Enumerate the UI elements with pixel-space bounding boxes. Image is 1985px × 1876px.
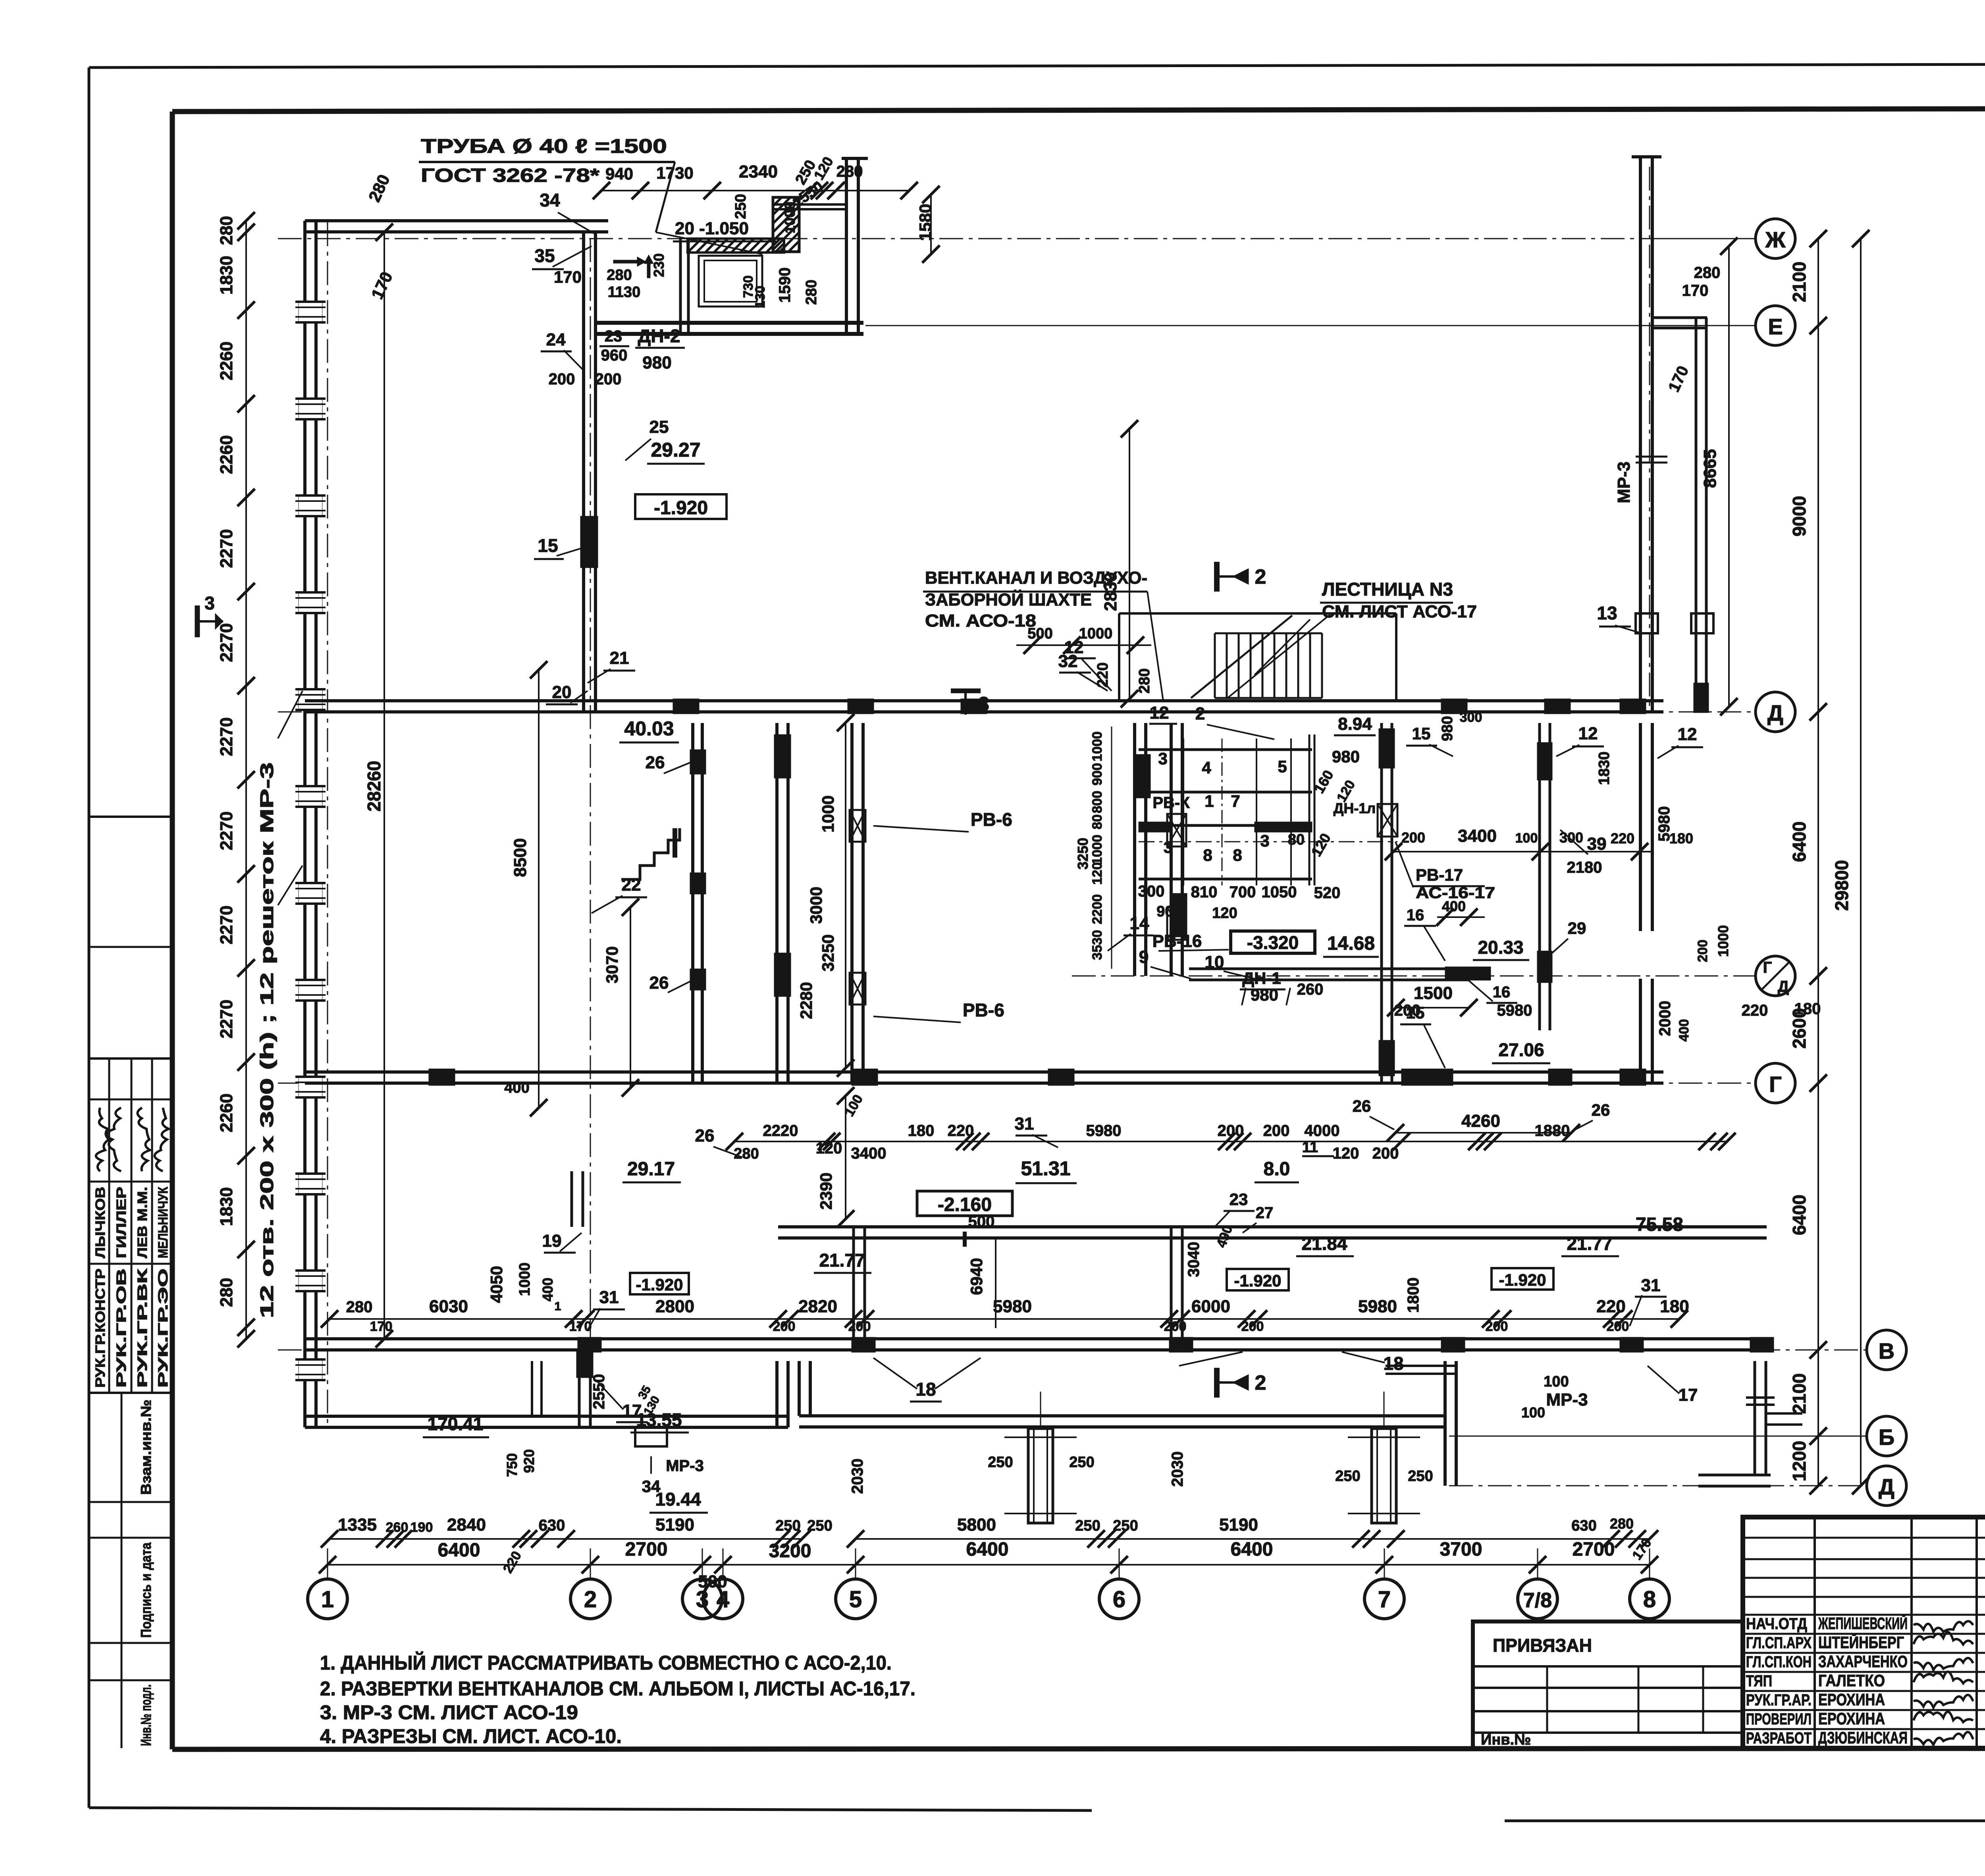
axis circle Ж (1663, 238, 1756, 239)
svg-text:400: 400 (504, 1080, 529, 1096)
svg-text:900: 900 (1156, 903, 1181, 920)
svg-text:2270: 2270 (217, 529, 236, 568)
svg-text:РАЗРАБОТ: РАЗРАБОТ (1746, 1729, 1812, 1747)
stair steps (1214, 633, 1216, 698)
svg-text:35: 35 (534, 245, 555, 266)
svg-text:1880: 1880 (1535, 1122, 1570, 1139)
svg-text:2000: 2000 (1656, 1001, 1674, 1036)
svg-text:-3.320: -3.320 (1247, 932, 1299, 953)
dim 3070 (630, 907, 631, 1088)
dim 8500 (538, 670, 540, 1108)
svg-text:ЛЕВ М.М.: ЛЕВ М.М. (135, 1187, 150, 1258)
entry inner box (699, 256, 762, 307)
svg-text:260: 260 (1297, 981, 1324, 998)
svg-text:3040: 3040 (1185, 1242, 1203, 1277)
svg-text:980: 980 (1251, 985, 1278, 1004)
axis circle 2 (570, 1579, 610, 1619)
svg-text:2260: 2260 (217, 1093, 236, 1132)
svg-text:2: 2 (1195, 704, 1205, 723)
svg-text:-1.920: -1.920 (636, 1275, 683, 1294)
svg-text:31: 31 (1641, 1276, 1661, 1295)
svg-text:2030: 2030 (1169, 1452, 1186, 1487)
svg-text:810: 810 (1191, 883, 1218, 901)
svg-text:26: 26 (1353, 1097, 1371, 1115)
привязан box (1473, 1621, 1743, 1748)
svg-text:280: 280 (1610, 1515, 1634, 1532)
entry top piece (774, 203, 846, 206)
entry bottom wall (594, 321, 863, 325)
svg-text:200: 200 (1401, 829, 1425, 846)
svg-text:31: 31 (1015, 1114, 1034, 1134)
left exterior wall (303, 221, 306, 1427)
wall in bottom-left block (531, 1361, 533, 1416)
svg-text:ЗАБОРНОЙ ШАХТЕ: ЗАБОРНОЙ ШАХТЕ (925, 589, 1092, 609)
wall fills on В (578, 1337, 601, 1352)
top-left exterior wall (305, 219, 608, 222)
bottom wing top wall (778, 1225, 1767, 1228)
axis circle 6 (1099, 1579, 1139, 1619)
svg-text:РУК.ГР.АР.: РУК.ГР.АР. (1746, 1691, 1812, 1709)
svg-text:280: 280 (1694, 264, 1721, 281)
svg-text:ГИЛЛЕР: ГИЛЛЕР (114, 1187, 129, 1258)
В axis wall (305, 1337, 1767, 1340)
svg-text:ЛЕСТНИЦА N3: ЛЕСТНИЦА N3 (1322, 579, 1453, 600)
svg-text:ЕРОХИНА: ЕРОХИНА (1818, 1690, 1885, 1709)
pier with 1500 label (1445, 967, 1491, 980)
svg-text:6400: 6400 (438, 1540, 480, 1561)
svg-text:220: 220 (1742, 1002, 1768, 1019)
dim 2830/220 interior (1129, 429, 1130, 699)
axis dash-dot verticals (327, 222, 328, 1425)
svg-text:280: 280 (217, 1278, 236, 1307)
svg-text:26: 26 (1592, 1101, 1610, 1119)
svg-text:6400: 6400 (966, 1539, 1009, 1560)
svg-text:280: 280 (734, 1145, 759, 1162)
svg-text:250: 250 (988, 1454, 1013, 1471)
axis line Ж (278, 238, 1755, 239)
svg-text:2030: 2030 (849, 1459, 866, 1494)
svg-text:-2.160: -2.160 (938, 1194, 992, 1215)
corridor wall axis Д (305, 699, 1663, 702)
svg-text:РУК.ГР.ВК: РУК.ГР.ВК (135, 1269, 150, 1388)
svg-text:4000: 4000 (1305, 1122, 1340, 1139)
svg-text:ТЯП: ТЯП (1746, 1672, 1772, 1690)
svg-text:200: 200 (1218, 1122, 1244, 1139)
svg-text:2200: 2200 (1090, 894, 1105, 924)
svg-text:МЕЛЬНИЧУК: МЕЛЬНИЧУК (156, 1187, 171, 1258)
svg-text:13: 13 (1597, 603, 1617, 623)
top dimension chain (601, 190, 909, 191)
svg-text:200: 200 (1607, 1319, 1629, 1334)
svg-text:3400: 3400 (851, 1145, 887, 1162)
svg-text:9: 9 (1139, 947, 1149, 967)
svg-text:6: 6 (1113, 1587, 1125, 1612)
axis circle Г (1756, 1063, 1795, 1103)
chain above В wall (330, 1318, 1679, 1320)
svg-text:200: 200 (1372, 1145, 1399, 1162)
svg-text:ГОСТ 3262 -78*: ГОСТ 3262 -78* (421, 165, 599, 186)
svg-text:400: 400 (540, 1278, 556, 1301)
lower margin boxes (89, 1501, 172, 1503)
svg-text:170: 170 (554, 268, 582, 286)
stair upper flight box (1119, 612, 1396, 615)
svg-text:6030: 6030 (429, 1297, 468, 1316)
svg-text:16: 16 (1407, 906, 1424, 924)
svg-text:32: 32 (1058, 652, 1078, 671)
svg-text:5800: 5800 (957, 1515, 996, 1535)
axis circle В (1867, 1330, 1906, 1370)
axis line В (278, 1350, 1867, 1351)
svg-text:1830: 1830 (217, 256, 236, 295)
svg-text:ДЗЮБИНСКАЯ: ДЗЮБИНСКАЯ (1818, 1728, 1908, 1747)
entry arrows (613, 257, 646, 266)
svg-text:ДН-2: ДН-2 (638, 326, 680, 346)
svg-text:8: 8 (1233, 846, 1242, 864)
svg-text:8.94: 8.94 (1338, 714, 1372, 734)
svg-text:5190: 5190 (655, 1515, 694, 1535)
svg-text:8: 8 (1203, 846, 1212, 864)
small step stairs at left wall (621, 828, 680, 879)
svg-text:Подпись и дата: Подпись и дата (138, 1542, 154, 1638)
svg-text:5980: 5980 (1358, 1297, 1397, 1316)
svg-text:200: 200 (1263, 1122, 1290, 1139)
svg-text:800: 800 (1090, 791, 1105, 814)
svg-text:250: 250 (732, 194, 749, 219)
svg-text:3: 3 (204, 593, 215, 613)
axis line Д (278, 711, 1756, 713)
svg-text:2: 2 (584, 1587, 597, 1612)
svg-text:РВ-17: РВ-17 (1416, 866, 1463, 884)
svg-text:4260: 4260 (1461, 1111, 1500, 1131)
svg-text:12: 12 (1678, 725, 1697, 744)
stair core walls (1133, 723, 1136, 976)
svg-text:15: 15 (1406, 1003, 1425, 1022)
svg-text:3250: 3250 (1075, 838, 1091, 870)
corridor wall axis Г (305, 1070, 1663, 1074)
svg-text:ГАЛЕТКО: ГАЛЕТКО (1818, 1671, 1885, 1690)
svg-text:2550: 2550 (590, 1374, 608, 1409)
svg-text:1800: 1800 (1405, 1278, 1422, 1313)
svg-text:3070: 3070 (603, 946, 621, 983)
elevation -1.920 top (635, 494, 727, 519)
axis circle Г/Д (1756, 956, 1795, 996)
svg-text:4: 4 (1202, 758, 1211, 777)
svg-text:6940: 6940 (967, 1258, 986, 1295)
svg-text:1590: 1590 (776, 268, 794, 303)
svg-text:3000: 3000 (807, 887, 825, 924)
svg-text:2820: 2820 (798, 1297, 837, 1316)
svg-text:180: 180 (908, 1122, 935, 1139)
vertical duct dims (1111, 727, 1112, 969)
svg-text:100: 100 (1515, 831, 1538, 846)
svg-text:34: 34 (540, 190, 560, 210)
svg-text:8.0: 8.0 (1264, 1159, 1290, 1180)
interior vertical dims x2130 (845, 723, 846, 1068)
svg-text:8500: 8500 (511, 838, 530, 877)
axis circle 4 (703, 1579, 743, 1619)
svg-text:300: 300 (1138, 883, 1165, 900)
svg-text:12: 12 (1578, 724, 1598, 743)
bottom-left block (305, 1415, 788, 1418)
entrance hatch band (688, 239, 784, 253)
svg-text:Д: Д (1767, 700, 1783, 725)
svg-text:200: 200 (848, 1319, 871, 1334)
svg-text:18: 18 (1383, 1353, 1403, 1374)
svg-text:16: 16 (1493, 983, 1511, 1001)
svg-text:ПРОВЕРИЛ: ПРОВЕРИЛ (1746, 1710, 1812, 1728)
svg-text:21.84: 21.84 (1301, 1233, 1347, 1254)
svg-text:20: 20 (552, 683, 572, 702)
svg-text:1000: 1000 (819, 795, 837, 832)
svg-text:1: 1 (555, 1300, 561, 1313)
svg-text:630: 630 (539, 1517, 565, 1534)
bottom wing lower wall (799, 1414, 1445, 1417)
svg-text:Г: Г (1763, 959, 1772, 976)
svg-text:2700: 2700 (625, 1539, 668, 1560)
svg-text:700: 700 (1230, 883, 1256, 901)
svg-text:120: 120 (1212, 905, 1237, 922)
section mark 2 (top) (1214, 562, 1220, 592)
svg-text:500: 500 (698, 1572, 727, 1591)
svg-text:1: 1 (321, 1587, 334, 1612)
axis circle 5 (836, 1579, 875, 1619)
svg-text:Д: Д (1879, 1474, 1894, 1499)
svg-text:120: 120 (816, 1139, 842, 1157)
wall stub 17 below В at axis 2 (578, 1361, 581, 1427)
svg-text:250: 250 (1075, 1517, 1100, 1534)
svg-text:МР-3: МР-3 (666, 1457, 704, 1475)
svg-text:250: 250 (1408, 1468, 1433, 1485)
svg-text:51.31: 51.31 (1021, 1157, 1070, 1180)
svg-text:РВ-16: РВ-16 (1152, 931, 1202, 951)
svg-text:200: 200 (549, 370, 575, 388)
svg-text:2260: 2260 (217, 435, 236, 474)
svg-text:4050: 4050 (487, 1266, 506, 1303)
svg-text:ДН-1: ДН-1 (1242, 969, 1281, 987)
svg-text:250: 250 (775, 1517, 800, 1534)
svg-text:23: 23 (605, 328, 622, 345)
svg-text:280: 280 (346, 1298, 373, 1316)
svg-text:2100: 2100 (1789, 1373, 1810, 1414)
svg-text:1335: 1335 (338, 1515, 377, 1535)
svg-text:РУК.ГР.ОВ: РУК.ГР.ОВ (114, 1269, 129, 1388)
svg-text:29800: 29800 (1831, 860, 1852, 911)
wall fills on Г (429, 1069, 455, 1085)
entrance bay left wall (679, 239, 682, 336)
svg-text:29.17: 29.17 (627, 1159, 675, 1180)
left wall ventilation openings (299, 302, 322, 322)
svg-text:7: 7 (1231, 792, 1240, 810)
svg-text:220: 220 (1611, 830, 1634, 846)
svg-text:15: 15 (538, 535, 558, 556)
svg-text:3: 3 (1260, 831, 1269, 850)
svg-text:40.03: 40.03 (624, 717, 674, 740)
svg-text:170: 170 (1682, 282, 1709, 299)
bottom inner dimension chain (330, 1538, 802, 1540)
svg-text:26: 26 (646, 753, 665, 772)
bottom axis dimension chain (328, 1564, 1650, 1566)
svg-text:7: 7 (1378, 1587, 1391, 1612)
svg-text:4. РАЗРЕЗЫ СМ. ЛИСТ. АСО-10.: 4. РАЗРЕЗЫ СМ. ЛИСТ. АСО-10. (320, 1725, 622, 1747)
svg-text:ГЛ.СП.КОН: ГЛ.СП.КОН (1746, 1653, 1812, 1671)
svg-text:1000: 1000 (1715, 925, 1731, 957)
-2.160 elevation (917, 1191, 1012, 1216)
svg-text:ЖЕПИШЕВСКИЙ: ЖЕПИШЕВСКИЙ (1818, 1614, 1908, 1633)
svg-text:2830: 2830 (1101, 572, 1120, 611)
svg-text:РУК.ГР.КОНСТР: РУК.ГР.КОНСТР (93, 1269, 108, 1388)
svg-text:8: 8 (1643, 1587, 1656, 1612)
svg-text:12: 12 (1150, 703, 1169, 723)
svg-text:1000: 1000 (1079, 625, 1113, 642)
svg-text:1050: 1050 (1262, 883, 1297, 901)
svg-text:9000: 9000 (1789, 496, 1810, 536)
svg-text:Б: Б (1879, 1425, 1894, 1450)
svg-text:3. МР-3 СМ. ЛИСТ АСО-19: 3. МР-3 СМ. ЛИСТ АСО-19 (320, 1701, 578, 1724)
dim 8665 (1728, 246, 1730, 707)
svg-text:Взам.инв.№: Взам.инв.№ (138, 1400, 154, 1495)
svg-text:МР-3: МР-3 (1614, 461, 1634, 503)
svg-text:280: 280 (836, 163, 863, 180)
svg-text:170: 170 (370, 1319, 393, 1334)
svg-text:14: 14 (1130, 914, 1149, 933)
svg-text:РУК.ГР.ЭО: РУК.ГР.ЭО (156, 1269, 171, 1388)
svg-text:СМ. ЛИСТ АСО-17: СМ. ЛИСТ АСО-17 (1322, 602, 1477, 621)
svg-text:25: 25 (649, 417, 669, 437)
svg-text:19: 19 (542, 1231, 562, 1251)
svg-text:27.06: 27.06 (1498, 1039, 1544, 1060)
axis line Д (bottom wing) (1449, 1485, 1867, 1487)
axis circle Б (1867, 1416, 1906, 1456)
svg-text:980: 980 (1439, 716, 1456, 741)
svg-text:20 -1.050: 20 -1.050 (675, 219, 749, 238)
svg-text:29: 29 (1568, 919, 1586, 937)
svg-text:120: 120 (1333, 1145, 1359, 1162)
svg-text:3700: 3700 (1440, 1539, 1482, 1560)
svg-text:ТРУБА Ø 40 ℓ =1500: ТРУБА Ø 40 ℓ =1500 (421, 135, 667, 157)
svg-text:-1.920: -1.920 (1234, 1271, 1281, 1290)
axis circle 1 (308, 1579, 347, 1619)
wall x1745 (691, 723, 694, 1083)
svg-text:180: 180 (1660, 1297, 1689, 1316)
svg-text:8665: 8665 (1700, 449, 1720, 488)
svg-text:Д: Д (1778, 978, 1789, 995)
MP-3 wall below Д (1639, 723, 1642, 931)
svg-text:ЛЫЧКОВ: ЛЫЧКОВ (93, 1187, 108, 1258)
svg-text:2270: 2270 (217, 1000, 236, 1039)
svg-text:НАЧ.ОТД: НАЧ.ОТД (1746, 1615, 1807, 1633)
svg-text:630: 630 (1571, 1517, 1596, 1534)
svg-text:2700: 2700 (1573, 1539, 1615, 1560)
svg-text:280: 280 (607, 267, 632, 283)
svg-text:10: 10 (1205, 952, 1224, 972)
svg-text:1: 1 (1204, 792, 1214, 810)
axis circle Д (1756, 692, 1795, 732)
vent core right wall (1380, 723, 1383, 1083)
wall axis Г/Д (1189, 968, 1469, 970)
svg-text:1730: 1730 (656, 164, 693, 182)
upper right room wall (1652, 316, 1707, 319)
vertical axis stems and circles 1..8 (327, 1548, 328, 1579)
svg-text:19.44: 19.44 (655, 1489, 701, 1510)
svg-text:ПРИВЯЗАН: ПРИВЯЗАН (1493, 1635, 1592, 1656)
svg-text:2270: 2270 (217, 812, 236, 850)
section mark 2 (bottom) (1214, 1368, 1220, 1398)
svg-text:2840: 2840 (447, 1515, 486, 1535)
svg-text:250: 250 (1335, 1468, 1360, 1485)
svg-text:1830: 1830 (1596, 752, 1613, 785)
svg-text:5980: 5980 (1086, 1122, 1122, 1139)
svg-text:920: 920 (521, 1449, 537, 1473)
right total chain 29800 (1860, 239, 1862, 1486)
svg-text:2270: 2270 (217, 906, 236, 945)
svg-text:21.77: 21.77 (819, 1250, 865, 1271)
wall fill 15 (580, 516, 598, 568)
interior wall x1515 (stair bay) (582, 232, 585, 712)
svg-text:18: 18 (915, 1379, 936, 1400)
right outer dimension chain (1817, 239, 1819, 1486)
bottom wing interior walls (852, 1227, 855, 1350)
svg-text:900: 900 (1090, 763, 1105, 786)
axis circle 7/8 (1518, 1579, 1557, 1619)
bottom right walls (1443, 1361, 1447, 1486)
svg-text:250: 250 (1113, 1517, 1138, 1534)
svg-text:230: 230 (651, 253, 667, 277)
svg-text:6400: 6400 (1789, 1195, 1810, 1235)
svg-text:Инв.№ подл.: Инв.№ подл. (138, 1685, 154, 1746)
svg-text:2390: 2390 (817, 1172, 835, 1209)
axis circle Е (1756, 306, 1795, 345)
svg-text:5: 5 (849, 1587, 862, 1612)
svg-text:3250: 3250 (819, 934, 837, 971)
inner drawing frame (172, 108, 1985, 112)
svg-text:200: 200 (1164, 1319, 1187, 1334)
outer sheet border (89, 64, 1985, 67)
svg-text:5980: 5980 (993, 1297, 1032, 1316)
svg-text:2220: 2220 (763, 1122, 798, 1139)
svg-text:80: 80 (1090, 814, 1105, 829)
svg-text:5190: 5190 (1219, 1515, 1258, 1535)
svg-text:ДН-1л: ДН-1л (1334, 800, 1376, 816)
svg-text:220: 220 (948, 1122, 974, 1139)
svg-text:23: 23 (1230, 1190, 1248, 1209)
svg-text:960: 960 (601, 347, 628, 364)
svg-text:200: 200 (1695, 940, 1710, 962)
MP-3 grille on right bottom wall (1746, 1396, 1775, 1399)
title block (1743, 1517, 1985, 1748)
svg-text:ЗАХАРЧЕНКО: ЗАХАРЧЕНКО (1818, 1652, 1908, 1671)
svg-text:2180: 2180 (1567, 859, 1602, 876)
svg-text:Е: Е (1768, 314, 1783, 339)
svg-text:3200: 3200 (769, 1541, 811, 1562)
svg-text:1500: 1500 (1414, 983, 1453, 1003)
svg-text:РВ-6: РВ-6 (963, 1000, 1004, 1020)
svg-text:500: 500 (1027, 625, 1052, 642)
section mark 3 (left margin) (195, 605, 200, 637)
axis circle 3 (682, 1579, 722, 1619)
svg-text:39: 39 (1587, 834, 1607, 854)
left margin stamp boxes (89, 816, 172, 818)
hatched pier at entry (773, 197, 799, 252)
right tall wall MP-3 (1639, 157, 1642, 712)
svg-text:7/8: 7/8 (1523, 1589, 1552, 1612)
svg-text:180: 180 (1669, 830, 1693, 846)
axis line Е (865, 325, 1756, 326)
svg-text:12 отв. 200 x 300 (h) ; 12 реш: 12 отв. 200 x 300 (h) ; 12 решеток МР-3 (256, 762, 277, 1318)
svg-text:750: 750 (504, 1453, 520, 1477)
svg-text:120: 120 (1090, 862, 1105, 885)
svg-text:26: 26 (649, 973, 669, 993)
vent duct grid (1139, 748, 1312, 751)
